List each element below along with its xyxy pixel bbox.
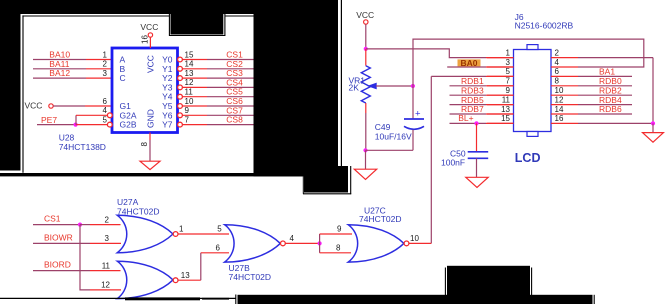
op-amp U27A NOR gate <box>117 215 173 252</box>
pin 9 stub left <box>487 94 514 96</box>
node BA12 wire to pin 3 <box>33 77 86 79</box>
border line bottom left <box>0 297 236 299</box>
node RDB6 wire <box>578 113 632 115</box>
pin 16 number rotated <box>140 35 149 44</box>
capacitor C50 100nF <box>476 123 478 151</box>
inversion bubble Y0 <box>178 57 183 62</box>
svg-text:13: 13 <box>501 105 510 114</box>
node BA0 label highlighted <box>458 59 481 66</box>
svg-text:+: + <box>415 109 421 120</box>
svg-text:11: 11 <box>102 261 111 270</box>
node BIORD wire <box>33 270 90 272</box>
wire Y7 to CS8 <box>182 124 207 126</box>
svg-text:VCC: VCC <box>25 101 43 111</box>
junction VCC node <box>364 47 368 51</box>
mask top band <box>0 0 254 14</box>
svg-text:5: 5 <box>217 224 222 233</box>
inversion bubble U27B output <box>281 241 286 246</box>
wire Y5 to CS6 <box>182 105 207 107</box>
svg-text:GND: GND <box>146 109 156 128</box>
inversion bubble Y1 <box>178 66 183 71</box>
inversion bubble Y7 <box>178 122 183 127</box>
wire Y6 to CS7 <box>182 114 207 116</box>
wire pin 16 to ground rail <box>578 122 653 124</box>
svg-text:LCD: LCD <box>515 151 541 165</box>
node RDB5 wire <box>450 104 487 106</box>
mask bottom band <box>238 295 593 304</box>
node RDB3 wire <box>450 94 487 96</box>
pin VCC vertical label <box>146 55 156 73</box>
wire CS1 to U27A pin 2 <box>80 224 90 226</box>
wire pin 13 to U27B pin 6 <box>178 279 201 281</box>
svg-text:7: 7 <box>185 115 190 124</box>
svg-text:U28: U28 <box>59 133 75 143</box>
wire U27A output to U27B pin 5 <box>178 233 229 235</box>
node BA11 wire to pin 2 <box>33 68 86 70</box>
svg-text:Y7: Y7 <box>162 120 173 130</box>
inversion bubble G2A <box>107 113 112 118</box>
wire U27B output to fork <box>285 242 319 244</box>
svg-text:3: 3 <box>103 69 108 78</box>
svg-text:14: 14 <box>555 105 564 114</box>
mask middle column <box>254 0 339 166</box>
inversion bubble Y6 <box>178 113 183 118</box>
border line box A left <box>22 15 24 172</box>
node BA1 wire <box>578 75 632 77</box>
border lines step block <box>350 166 352 194</box>
svg-text:10: 10 <box>185 97 194 106</box>
wire U27C output net to pin 5 <box>431 75 486 77</box>
mask bottom-right block <box>447 266 530 304</box>
svg-text:100nF: 100nF <box>441 157 465 167</box>
wire pin 2 to right-side ground rail <box>578 57 653 59</box>
svg-text:G2B: G2B <box>120 120 137 130</box>
pin 7 stub left <box>487 85 514 87</box>
wire Y1 to CS2 <box>182 68 207 70</box>
svg-text:12: 12 <box>555 95 564 104</box>
node BIOWR wire <box>33 242 90 244</box>
node CS1 wire <box>33 224 80 226</box>
wire VCC down to junction <box>365 24 367 49</box>
ground symbol right of J6 <box>643 133 664 143</box>
svg-text:10: 10 <box>410 234 419 243</box>
wire VCC junction down to VR1 <box>365 49 367 66</box>
op-amp U27B NOR gate <box>225 225 281 262</box>
wire junction to ground <box>365 150 367 169</box>
svg-text:CS1: CS1 <box>44 214 61 224</box>
svg-text:74HCT138D: 74HCT138D <box>59 142 106 152</box>
svg-text:7: 7 <box>506 77 511 86</box>
wire fork vertical <box>319 234 321 253</box>
wire VCC junction to J6 pin 1 <box>366 49 486 58</box>
pin 1 stub left <box>487 57 514 59</box>
svg-text:8: 8 <box>140 142 149 147</box>
wire CS1 bus down to pin 12 <box>80 225 90 290</box>
svg-text:BIOWR: BIOWR <box>44 232 73 242</box>
pin GND vertical label <box>146 109 156 128</box>
svg-text:13: 13 <box>185 69 194 78</box>
mask left column <box>0 0 21 171</box>
svg-text:BA12: BA12 <box>49 68 70 78</box>
svg-text:15: 15 <box>185 50 194 59</box>
pin 8 number rotated <box>140 142 149 147</box>
svg-text:6: 6 <box>555 67 560 76</box>
junction wiper node <box>411 84 415 88</box>
wire VCC to G1 pin 6 <box>53 105 85 107</box>
svg-text:VCC: VCC <box>356 10 374 20</box>
wire fork to pin 9 <box>320 233 352 235</box>
ground symbol under U28 <box>140 161 160 169</box>
pin 6 stub right <box>551 75 578 77</box>
border line band left <box>235 295 237 304</box>
svg-text:16: 16 <box>140 35 149 44</box>
svg-text:1: 1 <box>506 48 511 57</box>
pin 4 stub right <box>551 66 578 68</box>
wire U28 pin 8 to ground <box>149 133 151 141</box>
pin 2 stub right <box>551 57 578 59</box>
svg-text:VCC: VCC <box>146 55 156 73</box>
svg-text:74HCT02D: 74HCT02D <box>359 214 402 224</box>
wire Y2 to CS3 <box>182 77 207 79</box>
mask step block <box>304 166 348 193</box>
svg-text:9: 9 <box>185 106 190 115</box>
node RDB1 wire <box>450 85 487 87</box>
svg-text:5: 5 <box>506 67 511 76</box>
inversion bubble Y2 <box>178 76 183 81</box>
svg-text:3: 3 <box>506 58 511 67</box>
node BA10 wire to pin 1 <box>33 59 86 61</box>
svg-text:CS8: CS8 <box>226 115 243 125</box>
op-amp U27C NOR gate <box>348 225 404 262</box>
inversion bubble U27C output <box>404 241 409 246</box>
svg-text:2: 2 <box>103 60 108 69</box>
wire wiper to junction <box>376 85 413 87</box>
border lines notch <box>168 14 170 36</box>
svg-text:VCC: VCC <box>140 22 158 32</box>
inversion bubble U27A output <box>173 232 178 237</box>
svg-text:12: 12 <box>101 281 110 290</box>
svg-text:BIORD: BIORD <box>44 260 71 270</box>
svg-text:3: 3 <box>105 234 110 243</box>
border line right box left edge <box>340 0 342 167</box>
svg-text:4: 4 <box>555 58 560 67</box>
node RDB2 wire <box>578 94 632 96</box>
svg-text:2: 2 <box>555 48 560 57</box>
wire rail to ground symbol <box>652 123 654 132</box>
wire PE7 to G2B <box>37 124 76 126</box>
svg-text:10: 10 <box>555 86 564 95</box>
inversion bubble G2B <box>107 122 112 127</box>
resistor VR1 2K potentiometer zigzag <box>361 66 370 103</box>
svg-text:11: 11 <box>502 95 511 104</box>
svg-text:BL+: BL+ <box>458 113 473 123</box>
wire junction to G2B bubble <box>76 124 108 126</box>
pin 13 stub left <box>487 113 514 115</box>
wire VR1 bottom to C49 junction <box>365 103 367 113</box>
svg-text:4: 4 <box>103 106 108 115</box>
pin 5 stub left <box>487 75 514 77</box>
junction ground rail <box>651 121 655 125</box>
inversion bubble Y5 <box>178 104 183 109</box>
node RDB7 wire <box>450 113 487 115</box>
svg-text:N2516-6002RB: N2516-6002RB <box>515 20 574 30</box>
pin 16 stub right <box>551 122 578 124</box>
junction BL+ node <box>474 121 478 125</box>
svg-text:11: 11 <box>185 88 194 97</box>
svg-text:9: 9 <box>506 86 511 95</box>
border line box A top <box>22 15 169 17</box>
svg-text:6: 6 <box>216 243 221 252</box>
svg-text:PE7: PE7 <box>41 115 57 125</box>
border line band right <box>593 295 595 304</box>
node RDB4 wire <box>578 104 632 106</box>
capacitor C49 10uF/16V polarized <box>404 118 424 120</box>
inversion bubble Y4 <box>178 94 183 99</box>
svg-text:RDB6: RDB6 <box>599 104 622 114</box>
wire wiper net over-route to J6 pin 4 <box>413 39 644 119</box>
ground symbol under C50 <box>466 177 488 187</box>
mask notch <box>171 0 224 35</box>
wire Y3 to CS4 <box>182 86 207 88</box>
svg-text:4: 4 <box>290 234 295 243</box>
svg-text:14: 14 <box>185 60 194 69</box>
wire Y4 to CS5 <box>182 96 207 98</box>
pin 12 stub right <box>551 104 578 106</box>
svg-text:8: 8 <box>336 243 341 252</box>
inversion bubble lower gate output <box>173 278 178 283</box>
wire pin16 VCC <box>149 37 151 48</box>
svg-text:15: 15 <box>501 114 510 123</box>
junction fork node <box>318 241 322 245</box>
pin 8 stub right <box>551 85 578 87</box>
svg-text:6: 6 <box>103 97 108 106</box>
op-amp U27D NOR gate lower <box>117 261 173 298</box>
pin 10 stub right <box>551 94 578 96</box>
node RDB0 wire <box>578 85 632 87</box>
wire BA0 to pin 3 <box>447 66 486 68</box>
svg-text:10uF/16V: 10uF/16V <box>375 131 412 141</box>
svg-text:C: C <box>120 73 126 83</box>
svg-text:12: 12 <box>185 78 194 87</box>
svg-text:9: 9 <box>337 225 342 234</box>
wiper arrow of VR1 <box>369 83 377 88</box>
svg-text:1: 1 <box>179 225 184 234</box>
wire Y0 to CS1 <box>182 59 207 61</box>
op-amp U28 74HCT138 body <box>112 48 178 133</box>
connector J6 body <box>514 50 552 132</box>
junction CS1 node <box>78 223 82 227</box>
pin 3 stub left <box>487 66 514 68</box>
svg-text:13: 13 <box>181 271 190 280</box>
mask horizontal band <box>0 173 305 176</box>
svg-text:2K: 2K <box>349 83 360 93</box>
node BL+ wire <box>450 122 487 124</box>
ground symbol under VR1/C49 <box>354 169 376 179</box>
svg-text:74HCT02D: 74HCT02D <box>229 272 272 282</box>
svg-text:1: 1 <box>103 50 108 59</box>
wire U27C output <box>409 242 431 244</box>
pin 15 stub left <box>487 122 514 124</box>
border lines bottom-right block <box>444 268 446 304</box>
svg-text:8: 8 <box>555 77 560 86</box>
junction PE7 node <box>74 123 78 127</box>
junction C49 ground node <box>363 148 367 152</box>
svg-text:5: 5 <box>103 115 108 124</box>
wire fork to pin 8 <box>320 252 351 254</box>
pin 11 stub left <box>487 104 514 106</box>
svg-text:16: 16 <box>555 114 564 123</box>
pin 14 stub right <box>551 113 578 115</box>
wire junction up to G2A <box>75 115 77 124</box>
svg-text:74HCT02D: 74HCT02D <box>117 207 160 217</box>
inversion bubble Y3 <box>178 85 183 90</box>
svg-text:2: 2 <box>105 215 110 224</box>
